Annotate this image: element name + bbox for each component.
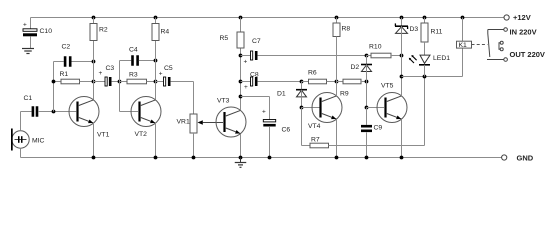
svg-text:D2: D2: [351, 64, 360, 71]
svg-text:D3: D3: [410, 26, 419, 33]
svg-text:VT2: VT2: [135, 131, 148, 138]
svg-text:R4: R4: [161, 29, 170, 36]
svg-text:C10: C10: [40, 28, 53, 35]
svg-text:+12V: +12V: [513, 13, 531, 22]
svg-text:+: +: [262, 109, 266, 116]
svg-text:K1: K1: [459, 42, 468, 49]
svg-text:C9: C9: [374, 125, 383, 132]
svg-text:R10: R10: [369, 44, 382, 51]
svg-text:C4: C4: [129, 47, 138, 54]
svg-text:VT1: VT1: [97, 131, 110, 138]
svg-text:R5: R5: [220, 35, 229, 42]
svg-text:MIC: MIC: [32, 138, 45, 145]
svg-text:C6: C6: [282, 127, 291, 134]
svg-text:R6: R6: [308, 70, 317, 77]
svg-text:VR1: VR1: [177, 118, 190, 125]
svg-text:R2: R2: [99, 27, 108, 34]
svg-text:+: +: [244, 59, 248, 66]
svg-text:D1: D1: [277, 90, 286, 97]
svg-text:C8: C8: [250, 72, 259, 79]
svg-text:R11: R11: [431, 29, 443, 36]
svg-text:VT5: VT5: [381, 83, 394, 90]
svg-text:OUT 220V: OUT 220V: [510, 50, 545, 59]
svg-text:LED1: LED1: [433, 55, 450, 62]
svg-text:R8: R8: [342, 26, 351, 33]
svg-text:+: +: [159, 70, 163, 77]
svg-text:C7: C7: [252, 38, 261, 45]
svg-text:R3: R3: [129, 72, 138, 79]
svg-text:IN 220V: IN 220V: [510, 28, 537, 37]
svg-text:C3: C3: [106, 65, 115, 72]
svg-text:C1: C1: [24, 95, 33, 102]
svg-text:VT3: VT3: [217, 98, 230, 105]
svg-text:C5: C5: [164, 65, 173, 72]
svg-text:+: +: [244, 84, 248, 91]
svg-text:R7: R7: [311, 136, 320, 143]
svg-text:VT4: VT4: [308, 123, 321, 130]
svg-text:GND: GND: [517, 154, 534, 163]
svg-text:R9: R9: [340, 90, 349, 97]
svg-text:+: +: [99, 70, 103, 77]
svg-text:+: +: [23, 21, 27, 28]
svg-text:C2: C2: [62, 44, 71, 51]
svg-text:R1: R1: [60, 71, 69, 78]
